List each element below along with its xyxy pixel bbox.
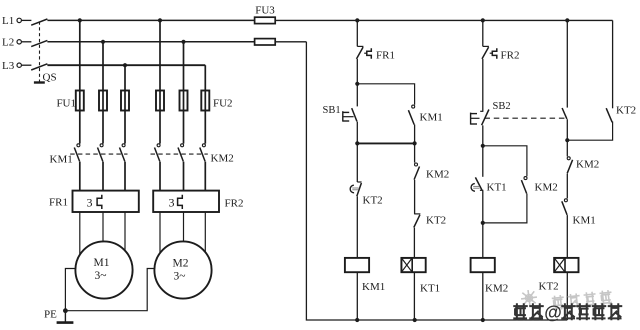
- wire L3: [47, 64, 205, 66]
- svg-text:3: 3: [169, 196, 175, 210]
- node L3-col3: [123, 63, 127, 67]
- wire E2: [566, 119, 568, 140]
- node A-branch bottom: [355, 141, 359, 145]
- fuse FU1 (3 cartridges): [79, 91, 81, 111]
- svg-text:M1: M1: [94, 257, 110, 269]
- switch QS poles: [22, 19, 32, 21]
- wire A4: [356, 122, 358, 144]
- wire column6 upper: [204, 65, 206, 90]
- wire B4: [413, 228, 415, 258]
- wire E1: [566, 20, 568, 107]
- svg-text:KT2: KT2: [539, 281, 559, 293]
- wire L2: [47, 41, 254, 43]
- svg-text:KM2: KM2: [211, 153, 234, 165]
- wire A3: [356, 84, 358, 107]
- node top bus col A: [355, 18, 359, 22]
- wire B3: [414, 180, 416, 214]
- coil KM2: [471, 258, 495, 272]
- svg-text:FR2: FR2: [225, 198, 244, 210]
- svg-text:KT1: KT1: [420, 283, 440, 295]
- svg-text:FR1: FR1: [376, 50, 395, 62]
- wire PE bus: [65, 269, 154, 311]
- svg-text:3~: 3~: [174, 271, 186, 283]
- svg-text:KT2: KT2: [426, 215, 446, 227]
- node L2-col5: [181, 40, 185, 44]
- wire C1: [482, 20, 484, 46]
- svg-text:@: @: [544, 303, 562, 323]
- fuse FU3 (2 cartridges): [255, 17, 276, 23]
- motor M1: [75, 241, 132, 298]
- svg-text:FU3: FU3: [255, 5, 275, 17]
- wire branch to KM1 aux: [357, 84, 414, 105]
- wire left control rail: [306, 42, 567, 320]
- contact FR2 (NC thermal): [483, 45, 489, 47]
- node E-KT2 join: [565, 138, 569, 142]
- thermal relay FR1 box: [73, 191, 139, 212]
- svg-text:3: 3: [87, 196, 93, 210]
- wire column3 upper: [124, 65, 126, 90]
- svg-text:KT2: KT2: [616, 105, 636, 117]
- wire L1 bus: [47, 19, 254, 21]
- contact KM2 aux (parallel): [524, 177, 527, 180]
- watermark light logo: [520, 289, 538, 307]
- coil KT2 (with timer box): [554, 258, 578, 272]
- linkage SB2 dashed: [485, 117, 565, 119]
- contact KT2 delayed NC: [357, 181, 361, 183]
- svg-text:KM1: KM1: [420, 112, 443, 124]
- wire C4: [482, 146, 484, 177]
- svg-text:KM2: KM2: [426, 169, 449, 181]
- wire C6: [482, 223, 484, 258]
- wire A5: [356, 143, 358, 182]
- wire E5: [566, 215, 568, 258]
- svg-text:SB1: SB1: [323, 105, 341, 116]
- contact KT2 aux: [414, 213, 420, 215]
- wire F1: [612, 20, 614, 108]
- wire branch to KM2 aux: [483, 146, 527, 176]
- QS linkage dashed: [39, 22, 41, 83]
- svg-text:3~: 3~: [95, 270, 107, 282]
- wire A1: [356, 20, 358, 46]
- svg-text:KT2: KT2: [363, 195, 383, 207]
- node B-branch bottom: [413, 141, 417, 145]
- thermal relay FR2 box: [153, 191, 219, 212]
- svg-text:FU1: FU1: [56, 98, 76, 110]
- svg-text:KM2: KM2: [485, 283, 508, 295]
- svg-text:QS: QS: [43, 72, 57, 84]
- wire branch bottom: [357, 142, 414, 144]
- node bus KM1 coil: [355, 318, 359, 322]
- svg-text:PE: PE: [44, 309, 57, 321]
- wire column2 upper: [102, 42, 104, 91]
- wire F2: [567, 122, 612, 141]
- wire C3: [482, 125, 484, 145]
- wire column5 upper: [183, 42, 185, 91]
- node A-branch top: [355, 82, 359, 86]
- contact KT1 delayed: [475, 177, 482, 190]
- svg-text:FR1: FR1: [49, 197, 68, 209]
- wire B2: [414, 143, 416, 162]
- svg-text:L1: L1: [2, 15, 14, 27]
- wire E6: [566, 272, 568, 320]
- wire B5: [413, 272, 415, 320]
- motor M2: [154, 241, 211, 298]
- node PE: [63, 308, 68, 313]
- svg-text:L3: L3: [2, 60, 15, 72]
- wire E3: [566, 140, 568, 156]
- contactor KM1 main contacts: [77, 144, 80, 147]
- node top bus col C: [481, 18, 485, 22]
- wire B1: [414, 125, 416, 144]
- terminal L3: [17, 63, 21, 67]
- contactor KM2 main contacts: [157, 144, 160, 147]
- wire A2: [356, 59, 358, 84]
- wire C2: [482, 59, 484, 111]
- node C-branch bottom: [481, 221, 485, 225]
- watermark light text: [552, 290, 613, 311]
- node L1-col4: [158, 18, 162, 22]
- terminal L2: [17, 40, 21, 44]
- ground symbol PE: [64, 311, 66, 323]
- coil KT1 (with timer box): [401, 258, 425, 272]
- svg-text:KM2: KM2: [535, 182, 558, 194]
- svg-text:KM1: KM1: [50, 154, 73, 166]
- contact KM2 aux (mirrored): [567, 157, 570, 160]
- contact SB2-linked NO: [562, 108, 567, 119]
- coil KM1: [345, 258, 369, 272]
- svg-text:KM1: KM1: [362, 281, 385, 293]
- contact KM1 aux NO: [564, 199, 567, 202]
- svg-text:L2: L2: [2, 37, 14, 49]
- node L1-col1: [78, 18, 82, 22]
- svg-text:SB2: SB2: [493, 101, 511, 112]
- watermark dark text: [513, 303, 528, 320]
- wire column4 upper: [159, 20, 161, 90]
- wire A6: [356, 196, 358, 258]
- node C-branch top: [481, 144, 485, 148]
- wire column1 upper: [79, 20, 81, 90]
- wire branch bottom D: [483, 194, 527, 223]
- wires FR boxes to motors: [79, 212, 81, 255]
- node top bus col E: [565, 18, 569, 22]
- fuse FU2 (3 cartridges): [159, 91, 161, 111]
- wire E4: [566, 174, 568, 199]
- wire A7: [356, 272, 358, 320]
- svg-text:KM1: KM1: [573, 215, 596, 227]
- node bus KT1 coil: [413, 318, 417, 322]
- wire C7: [482, 272, 484, 320]
- svg-text:KM2: KM2: [576, 159, 599, 171]
- wire PE to M1: [65, 269, 75, 311]
- svg-text:KT1: KT1: [487, 182, 507, 194]
- wire C5: [482, 191, 484, 223]
- node L2-col2: [101, 40, 105, 44]
- svg-text:FR2: FR2: [501, 50, 520, 62]
- contact KT2 aux NO: [606, 108, 612, 122]
- svg-text:FU2: FU2: [213, 98, 233, 110]
- contact KM1 aux NO: [412, 105, 415, 108]
- node bus KM2 coil: [481, 318, 485, 322]
- svg-text:M2: M2: [173, 258, 189, 270]
- contact FR1 (NC thermal): [357, 45, 363, 47]
- terminal L1: [17, 18, 21, 22]
- contact KM2 aux NO (mirrored): [415, 163, 418, 166]
